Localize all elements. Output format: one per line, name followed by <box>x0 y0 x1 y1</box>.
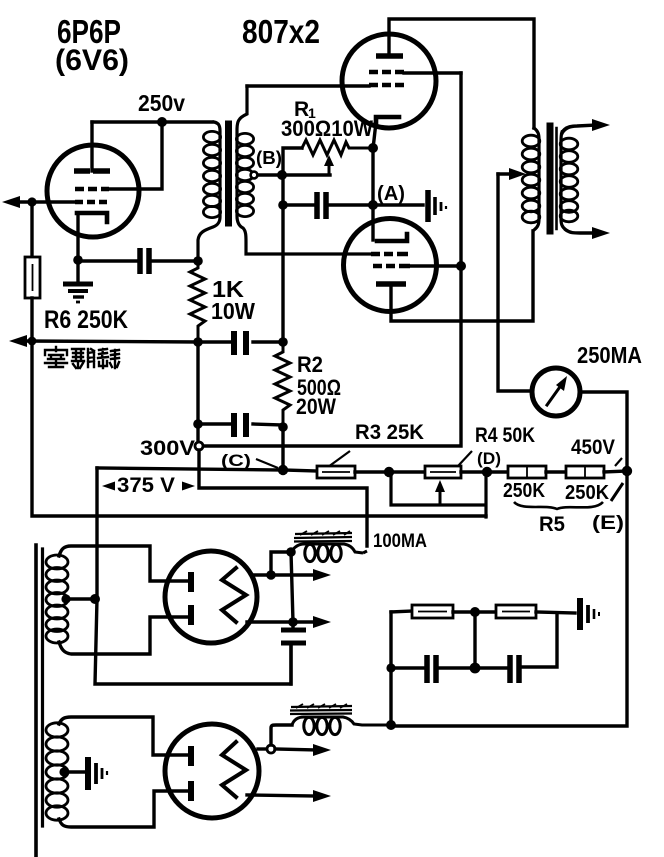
wire R2 bottom to node C <box>281 427 284 470</box>
V2 plate lead and top rail <box>389 19 534 128</box>
resistor R3 25K (box) <box>317 466 355 478</box>
interstage primary spine and leads <box>198 122 220 262</box>
output secondary top lead with arrow <box>562 125 596 133</box>
tube V5 rectifier envelope <box>165 724 259 818</box>
V1 screen grid dashes <box>75 187 109 192</box>
V2 cathode <box>376 117 399 125</box>
node cathode junction <box>73 255 83 265</box>
wire cathode to bypass cap <box>78 259 137 262</box>
wire 375V rail from left vertical to node C <box>97 468 283 470</box>
capacitor cathode bypass <box>140 248 149 274</box>
resistor R1 zigzag <box>302 140 371 155</box>
svg-text:(C): (C) <box>221 451 251 470</box>
R4 wiper arrow <box>439 492 442 505</box>
wire R5 to node E <box>604 471 627 472</box>
output transformer secondary coil <box>560 138 578 222</box>
interstage secondary top wire to V2 grid <box>247 84 369 87</box>
R1 wiper arrow from node B <box>328 161 331 174</box>
V4 filament <box>222 568 246 622</box>
V1 plate bar <box>74 168 110 174</box>
V2 plate bar <box>376 53 403 59</box>
svg-text:R5: R5 <box>539 513 565 536</box>
V4 plate2 <box>188 605 194 625</box>
wire input to grid <box>17 200 76 203</box>
svg-text:(E): (E) <box>592 513 624 534</box>
svg-text:250K: 250K <box>565 482 610 504</box>
resistor R5b 250K (box) <box>546 470 566 473</box>
filter choke L2 coil <box>304 717 314 734</box>
node V4 lower arrow junction <box>288 617 298 627</box>
lead C1 bottom <box>289 645 292 684</box>
node cap row2 left junction <box>193 419 203 429</box>
wire R6 down to bottom rail <box>32 298 486 516</box>
V3 cathode lead from node A <box>371 205 374 240</box>
node RC top junction <box>470 607 480 617</box>
rectifier transformer T2 secondary coil <box>46 723 68 820</box>
wire RC bottom left lead <box>391 666 424 669</box>
wire junction down to R6 <box>30 202 33 258</box>
ground below V1 cathode <box>76 260 79 283</box>
capacitor RC-c2 <box>510 655 519 683</box>
R4 wiper loop wires <box>389 472 486 517</box>
resistor R5a 250K (box) <box>487 470 508 473</box>
filter choke L1 core <box>294 533 352 542</box>
tube V2 807 upper envelope <box>342 34 436 128</box>
wire RC vertical mid link <box>473 612 476 668</box>
filter choke L1 coil <box>305 544 315 561</box>
V1 control grid dashes <box>75 200 107 205</box>
V5 plate1 <box>188 746 194 766</box>
wire feedback line to 1K bottom <box>24 341 198 342</box>
arrow output V5 upper <box>275 749 318 750</box>
svg-text:807x2: 807x2 <box>242 13 320 50</box>
svg-text:R2: R2 <box>297 352 323 377</box>
output primary spine and leads <box>534 128 539 230</box>
wire V2 grid1 to right bus <box>404 71 461 74</box>
RC network top row left lead <box>391 611 412 612</box>
output secondary spine <box>561 132 566 230</box>
T1 top lead to V4 plate1 <box>59 546 187 581</box>
meter M 250MA <box>532 368 580 416</box>
V3 plate lead to output transformer <box>391 231 533 321</box>
tube V3 807 lower envelope <box>344 219 437 312</box>
wire node E bus down <box>391 471 627 726</box>
node V4 output junction <box>266 570 276 580</box>
resistor R6 (box) <box>25 257 40 298</box>
resistor R4 50K (box) <box>389 470 425 473</box>
node 1K top junction <box>193 256 203 266</box>
filter choke L2 core <box>290 706 352 714</box>
tube V4 rectifier envelope <box>165 551 257 643</box>
terminal 300V (open circle) <box>196 424 199 442</box>
interstage transformer primary coil <box>203 131 220 217</box>
wire V3 grid2 to right bus <box>410 264 461 267</box>
brace under R5 <box>514 502 603 509</box>
pointer line from R3 label to resistor R3 <box>328 451 350 467</box>
interstage secondary spine and top lead <box>237 86 371 254</box>
svg-text:10W: 10W <box>211 298 255 324</box>
node A junction <box>368 200 378 210</box>
arrow output V4 lower <box>247 620 316 623</box>
node E junction <box>622 466 632 476</box>
coupling capacitor row1 <box>198 340 283 343</box>
resistor RC-a (box) <box>412 605 453 618</box>
wire node B down / cap lead <box>281 175 284 205</box>
node B junction <box>277 170 287 180</box>
arrow output left (feedback line) <box>9 335 27 347</box>
node RC bottom left <box>386 663 395 672</box>
svg-text:R3 25K: R3 25K <box>355 421 424 444</box>
svg-text:R6 250K: R6 250K <box>44 306 128 334</box>
ground at T2 center tap <box>85 757 91 790</box>
svg-text:450V: 450V <box>571 436 615 459</box>
V3 grid row2 dashes <box>373 264 410 269</box>
wire RC right down link <box>522 613 557 667</box>
wire choke1 down from cap junction <box>291 552 293 630</box>
output transformer primary coil <box>522 135 540 223</box>
arrow output V4 upper <box>271 573 316 576</box>
interstage transformer secondary coil <box>236 133 253 216</box>
T1 bottom lead to V4 plate2 <box>59 617 187 654</box>
svg-text:(B): (B) <box>256 148 282 168</box>
wire RC network left bus <box>389 612 392 725</box>
svg-text:300V: 300V <box>140 437 195 460</box>
T2 center tap <box>59 767 68 776</box>
pointer line from R4 label to resistor R4 <box>458 451 472 466</box>
T2 top lead to V5 plate1 <box>59 717 187 755</box>
wire center tap down to meter <box>498 174 531 391</box>
node R6 / feedback line tee <box>28 337 37 346</box>
wire R3 to row junction <box>355 470 388 473</box>
capacitor RC-c1 <box>427 655 436 683</box>
V5 filament <box>222 742 246 797</box>
svg-text:(6V6): (6V6) <box>55 44 129 77</box>
filter capacitor C1 <box>281 630 306 643</box>
wire row C to R3 <box>283 470 317 471</box>
V1 plate lead up <box>90 122 93 171</box>
wire node B up to R1 <box>283 148 302 175</box>
pointer line from 450V to node E <box>615 458 622 466</box>
svg-text:(D): (D) <box>477 449 501 468</box>
node at cap left <box>278 200 288 210</box>
node input junction <box>27 197 36 206</box>
wire V1 screen to 250V rail <box>109 122 162 189</box>
wire 300V node down to choke feed <box>199 450 367 546</box>
power transformer core long line <box>34 545 38 857</box>
V2 grid row1 dashes <box>369 70 404 75</box>
svg-text:(A): (A) <box>377 183 405 205</box>
svg-text:375 V: 375 V <box>117 474 175 497</box>
pointer slash from 250K to node E <box>611 483 623 501</box>
Chinese annotation (drawn strokes) <box>45 347 119 368</box>
wire grid bus down right side <box>199 73 461 446</box>
node R2 bottom junction <box>278 422 288 432</box>
wire V4 output to choke junction <box>254 552 291 575</box>
arrow output V5 lower <box>247 795 316 796</box>
output secondary bottom lead with arrow <box>566 230 596 233</box>
node cap row1 right junction <box>278 337 288 347</box>
meter needle <box>547 384 562 405</box>
wire node A to ground <box>373 203 423 206</box>
wire RC top middle <box>453 610 496 613</box>
interstage transformer core <box>225 124 232 223</box>
wire V2 cathode down to node A <box>373 122 376 205</box>
svg-text:100MA: 100MA <box>373 531 427 552</box>
wire R4 to node D <box>461 470 486 473</box>
node RC bottom junction <box>470 663 481 674</box>
wire V5 output up to choke2 <box>271 725 292 745</box>
node choke2 output junction <box>386 720 396 730</box>
node 250V junction <box>157 117 167 127</box>
power transformer core inner line <box>41 549 44 826</box>
V1 cathode lead down <box>76 214 79 260</box>
node 1K bottom junction <box>193 337 203 347</box>
V5 plate2 <box>188 781 194 801</box>
V4 plate1 <box>188 572 194 592</box>
wire HV return line x95 <box>95 468 291 684</box>
V5 output terminal (open circle) <box>258 747 266 750</box>
resistor R2 zigzag <box>275 342 290 427</box>
resistor RC-b (box) <box>496 605 536 618</box>
V2 grid row2 dashes <box>369 83 404 88</box>
node R1 right / V2 cathode junction <box>368 143 378 153</box>
wire cap to 1K top <box>152 259 198 262</box>
V1 cathode <box>77 213 107 222</box>
primary center tap arrow feed <box>498 172 512 175</box>
node choke1 left junction <box>286 547 296 557</box>
node row junction (screen divider) <box>384 467 394 477</box>
wire RC bottom middle <box>439 666 506 669</box>
wire 250V rail <box>92 120 212 123</box>
wire meter to node E <box>580 392 627 471</box>
ground at RC network <box>577 598 583 630</box>
wire RC top to ground <box>536 612 575 613</box>
pointer line from (C) to node C <box>256 459 278 468</box>
T2 bottom lead to V5 plate2 <box>59 791 187 827</box>
input arrow left <box>2 196 20 208</box>
V3 grid row1 dashes <box>371 252 408 257</box>
resistor 1K 10W zigzag <box>190 261 205 342</box>
svg-text:R4 50K: R4 50K <box>475 424 535 447</box>
node C junction <box>278 465 288 475</box>
coupling capacitor row2 <box>198 342 283 425</box>
wire node B down to cap row <box>281 205 284 342</box>
capacitor B to A <box>283 203 373 206</box>
V3 plate bar <box>376 281 406 287</box>
interstage secondary tap terminal <box>251 172 258 179</box>
ground at node A <box>425 190 431 222</box>
svg-text:20W: 20W <box>296 394 336 419</box>
rectifier transformer T1 secondary coil <box>46 555 68 643</box>
node D junction <box>482 467 492 477</box>
wire tap to node B <box>259 173 330 176</box>
tube V1 6P6P envelope <box>47 145 139 237</box>
node center tap on return line <box>90 594 100 604</box>
output transformer core <box>547 126 554 231</box>
node V3 grid junction on bus <box>456 261 466 271</box>
T1 center tap <box>61 594 70 603</box>
V3 cathode <box>377 234 407 241</box>
svg-text:250v: 250v <box>138 90 185 116</box>
svg-text:250MA: 250MA <box>577 342 642 368</box>
svg-text:250K: 250K <box>503 480 545 502</box>
